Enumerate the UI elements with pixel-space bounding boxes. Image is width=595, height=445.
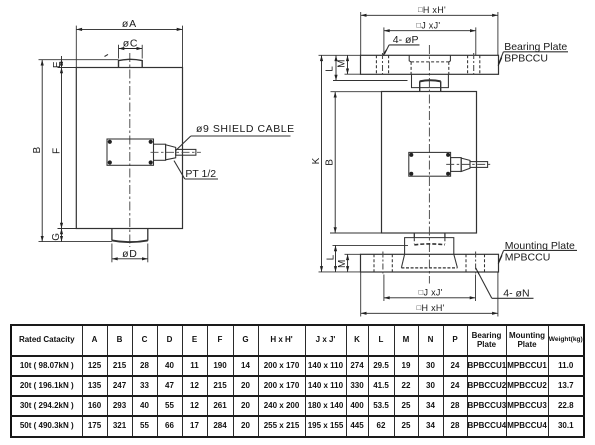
svg-text:K: K <box>311 157 322 164</box>
extension mounting plate top left <box>345 253 361 255</box>
extension lines ØA <box>75 26 77 68</box>
svg-text:□H xH': □H xH' <box>418 5 446 15</box>
svg-text:BPBCCU: BPBCCU <box>504 53 548 65</box>
svg-text:ø9 SHIELD CABLE: ø9 SHIELD CABLE <box>196 123 295 135</box>
dim K <box>321 55 323 272</box>
extension plate bottom left (top plate) <box>345 73 361 75</box>
extension body bottom left <box>58 228 77 230</box>
connector step 1 (right) <box>451 158 462 172</box>
label F <box>51 148 62 154</box>
svg-text:M: M <box>337 260 348 268</box>
svg-text:□J xJ': □J xJ' <box>416 21 440 31</box>
surface mark <box>105 54 109 56</box>
mounting plate hub <box>401 254 404 267</box>
svg-text:B: B <box>325 159 336 166</box>
bottom load button (right) <box>413 233 415 238</box>
label MPBCCU <box>505 251 551 263</box>
svg-text:Bearing Plate: Bearing Plate <box>504 41 567 53</box>
leader Ø9 <box>176 136 191 151</box>
dim H bottom <box>361 312 498 314</box>
dim ØA <box>76 28 182 30</box>
connector step 2 (right) <box>461 158 470 171</box>
top boss (load button) <box>119 59 143 67</box>
mounting plate <box>361 254 499 272</box>
connector block bolts (right) <box>409 153 450 176</box>
label Bearing Plate <box>504 41 567 53</box>
leader 4-ØN <box>478 271 492 298</box>
connector step 1 (left) <box>154 144 166 160</box>
centerline horizontal connector (right) <box>446 163 492 165</box>
centerline vertical (right) <box>428 45 430 284</box>
extension L bottom top line <box>333 244 409 246</box>
bottom boss <box>112 229 148 241</box>
extension body top left <box>58 67 77 69</box>
svg-text:F: F <box>51 148 62 154</box>
connector block (left) <box>107 139 154 165</box>
body (right column cell) <box>382 92 477 234</box>
svg-text:□J xJ': □J xJ' <box>419 287 443 297</box>
extension top boss line <box>39 59 119 61</box>
svg-text:MPBCCU: MPBCCU <box>505 251 551 263</box>
bearing plate recess <box>409 55 450 62</box>
dim L top <box>335 55 337 80</box>
label Ø9 SHIELD CABLE <box>196 123 295 135</box>
svg-text:M: M <box>336 60 347 68</box>
cable (left) <box>176 149 196 155</box>
svg-text:L: L <box>325 66 336 72</box>
centerline horizontal through connector (left) <box>151 151 201 153</box>
dim B (right) <box>334 92 336 233</box>
label Mounting Plate <box>505 240 575 252</box>
dim H top <box>361 14 498 16</box>
extension mounting plate bottom left <box>319 271 361 273</box>
connector block bolts <box>108 140 153 165</box>
dim line E F G column <box>61 56 63 60</box>
svg-text:øA: øA <box>122 18 137 30</box>
leader Bearing Plate <box>500 52 504 62</box>
extension L top bottom line <box>333 80 408 82</box>
dim B (left) <box>41 60 43 242</box>
bearing plate <box>361 55 499 74</box>
leader 4-ØP <box>385 45 390 54</box>
connector step 2 (left) <box>166 145 176 160</box>
svg-text:PT 1/2: PT 1/2 <box>185 168 216 180</box>
extension plate top left <box>319 54 361 56</box>
top load button (right) <box>420 81 441 92</box>
label E <box>52 61 63 68</box>
centerline vertical (left) <box>129 53 131 247</box>
cable (right) <box>470 162 488 168</box>
label G <box>51 233 62 241</box>
label PT 1/2 <box>185 168 216 180</box>
dim M bottom <box>347 254 349 272</box>
svg-text:□H xH': □H xH' <box>417 303 445 313</box>
label 4-ØN <box>503 288 529 300</box>
dim L bottom <box>335 245 337 272</box>
leader PT 1/2 <box>174 161 185 179</box>
svg-text:B: B <box>32 147 43 154</box>
cup under bearing plate <box>412 74 449 87</box>
dim J top <box>384 30 476 32</box>
dim ØD <box>112 258 148 260</box>
svg-text:L: L <box>325 254 336 260</box>
extension bottom boss line <box>39 241 112 243</box>
leader Mounting Plate <box>500 250 504 259</box>
svg-text:4- øP: 4- øP <box>393 34 419 46</box>
body (left column cell) <box>76 68 182 229</box>
label BPBCCU <box>504 53 548 65</box>
specification table <box>10 324 585 438</box>
label 4-ØP <box>393 34 419 46</box>
connector block (right) <box>409 152 451 176</box>
svg-text:øD: øD <box>122 248 138 260</box>
dim M top <box>347 55 349 74</box>
bottom cup <box>405 238 454 255</box>
extension body bottom left (right drawing) <box>330 232 382 234</box>
dim J bottom <box>384 297 476 299</box>
extension lines ØD <box>111 244 113 263</box>
svg-text:G: G <box>51 233 62 241</box>
svg-text:øC: øC <box>123 38 139 50</box>
extension body top left (right drawing) <box>331 91 383 93</box>
extension lines ØC <box>118 45 120 59</box>
dim ØC <box>119 48 143 50</box>
bearing plate bolt holes <box>375 55 377 74</box>
mounting plate bolt holes <box>373 254 375 272</box>
